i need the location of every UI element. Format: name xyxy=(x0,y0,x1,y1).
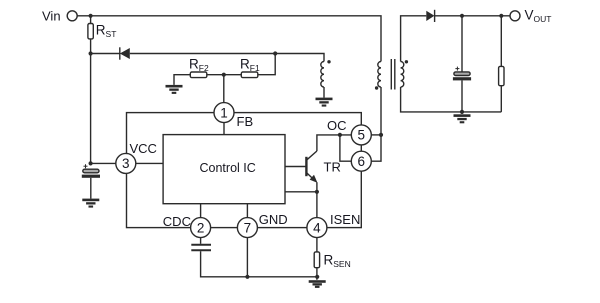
aux winding L1 xyxy=(321,62,324,88)
wire primary bottom to pins 5 and 6 xyxy=(371,87,381,161)
transformer T1 core xyxy=(391,59,395,90)
wire C1 to ground xyxy=(90,178,92,199)
wire pin4 down to RSEN xyxy=(316,238,318,252)
svg-text:VCC: VCC xyxy=(130,141,157,156)
ground (VCC cap) xyxy=(82,199,99,208)
transformer T1 secondary winding xyxy=(401,62,404,88)
wire VCC node to pin 3 xyxy=(91,162,116,164)
svg-text:1: 1 xyxy=(220,105,228,120)
diode D1 (pointing left) xyxy=(120,47,130,59)
node junction top rail / RST xyxy=(89,14,93,18)
terminal VOUT xyxy=(510,11,520,21)
wire CDC cap to bottom rail xyxy=(201,251,318,277)
node junction bottom rail / ground xyxy=(460,110,464,114)
svg-text:GND: GND xyxy=(259,212,288,227)
node junction FB divider xyxy=(222,73,226,77)
pin 2 circle xyxy=(191,218,211,238)
wire control block to emitter junction xyxy=(285,191,317,193)
resistor RST xyxy=(88,24,93,39)
wire pin7 down to bottom rail xyxy=(246,238,248,277)
transformer T1 primary winding xyxy=(378,62,381,88)
wire RST top stub xyxy=(90,16,92,24)
node junction RSEN / bottom rail xyxy=(315,275,319,279)
wire pin2 to control block xyxy=(200,204,202,218)
diode D2 output (pointing right) xyxy=(426,10,434,22)
node junction OC line xyxy=(338,133,342,137)
wire RF2 to RF1 xyxy=(207,74,242,76)
pin 5 circle xyxy=(351,125,371,145)
node junction output cap xyxy=(460,14,464,18)
ground (aux winding) xyxy=(316,98,333,107)
wire collector up to OC line xyxy=(317,135,351,151)
svg-text:3: 3 xyxy=(122,156,130,171)
wire emitter down to pin 4 xyxy=(316,182,318,217)
svg-text:OC: OC xyxy=(327,118,347,133)
wire OC junction down to pin 6 xyxy=(340,135,351,161)
wire output rail to VOUT xyxy=(435,15,510,17)
resistor R load xyxy=(499,66,504,85)
wire secondary bottom rail xyxy=(401,87,502,112)
wire RSEN to ground xyxy=(316,268,318,280)
svg-text:5: 5 xyxy=(358,128,366,143)
wire secondary top to output diode xyxy=(401,16,427,62)
svg-text:Control IC: Control IC xyxy=(200,161,256,175)
wire pin1 to control block xyxy=(223,123,225,135)
pin 1 circle xyxy=(214,103,234,123)
pin 3 circle xyxy=(116,153,136,173)
resistor RF1 xyxy=(241,72,257,78)
resistor RF2 xyxy=(190,72,207,78)
node junction primary / pin5 xyxy=(379,133,383,137)
pin 4 circle xyxy=(307,218,327,238)
wire from junction to aux winding xyxy=(275,54,324,62)
transistor TR base wire xyxy=(285,166,306,168)
ground (RF2) xyxy=(166,85,183,94)
capacitor C3 top plate xyxy=(454,72,470,76)
svg-text:ISEN: ISEN xyxy=(330,212,360,227)
pin 7 circle xyxy=(237,218,257,238)
node secondary polarity dot xyxy=(405,60,408,63)
wire load resistor bottom xyxy=(500,86,502,112)
capacitor C3 output plus sign xyxy=(455,67,459,71)
wire aux winding to ground xyxy=(323,87,325,98)
capacitor C1 (VCC electrolytic) plus sign xyxy=(84,164,88,168)
node junction emitter xyxy=(315,190,319,194)
wire primary junction to pin 5 xyxy=(371,134,381,136)
node junction RST / diode line xyxy=(89,51,93,55)
node aux winding polarity dot xyxy=(327,60,330,63)
wire RF2 ground leg xyxy=(174,75,190,85)
capacitor C1 bottom plate xyxy=(82,175,100,178)
node primary polarity dot xyxy=(375,86,378,89)
wire diode line left segment xyxy=(91,53,120,55)
wire FB divider down to pin 1 xyxy=(223,75,225,103)
svg-text:TR: TR xyxy=(324,160,341,175)
svg-text:6: 6 xyxy=(358,154,366,169)
svg-text:FB: FB xyxy=(237,114,254,129)
node junction load resistor xyxy=(499,14,503,18)
resistor RSEN xyxy=(314,252,319,268)
terminal Vin xyxy=(67,11,77,21)
wire diode line right segment xyxy=(130,53,275,55)
wire output cap to bottom rail xyxy=(461,80,463,112)
capacitor C3 bottom plate xyxy=(453,77,471,80)
wire RF1 right leg up to diode line xyxy=(258,54,275,75)
svg-text:Vin: Vin xyxy=(42,9,61,24)
svg-text:2: 2 xyxy=(197,220,205,235)
wire pin3 to control block xyxy=(136,162,163,164)
wire output cap top xyxy=(461,16,463,72)
transistor TR xyxy=(306,151,317,183)
pin 6 circle xyxy=(351,151,371,171)
node junction diode line / RF1 / aux winding xyxy=(273,51,277,55)
IC outer boundary box xyxy=(127,113,362,228)
wire top rail from Vin to transformer primary xyxy=(77,16,381,62)
wire pin7 to control block xyxy=(246,204,248,218)
wire load resistor top xyxy=(500,16,502,67)
wire Vin rail down to VCC node xyxy=(90,54,92,164)
wire RST bottom stub xyxy=(90,39,92,54)
op-amp inner block Control IC xyxy=(163,135,285,204)
svg-text:7: 7 xyxy=(244,220,252,235)
node junction VCC cap xyxy=(89,161,93,165)
capacitor C1 top plate xyxy=(83,169,99,173)
capacitor C2 (CDC) xyxy=(191,245,211,250)
wire pin2 to CDC capacitor xyxy=(200,238,202,244)
ground (output) xyxy=(454,114,471,123)
svg-text:CDC: CDC xyxy=(163,214,191,229)
node junction bottom rail pin7 xyxy=(245,275,249,279)
ground (RSEN) xyxy=(309,280,326,288)
svg-text:4: 4 xyxy=(313,220,321,235)
